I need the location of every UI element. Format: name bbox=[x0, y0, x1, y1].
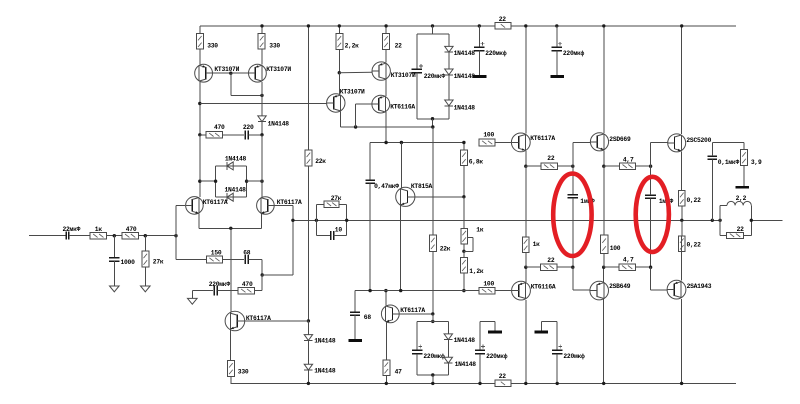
node loop bottom bbox=[431, 373, 434, 383]
resistor R 4,7 lower bbox=[619, 256, 651, 270]
node rail bracket bbox=[417, 24, 449, 34]
resistor R string 22к bbox=[305, 26, 326, 321]
node rail 2SD669 bbox=[602, 24, 605, 27]
svg-text:6,8к: 6,8к bbox=[469, 159, 484, 166]
wire 2SB649 emitter bbox=[603, 267, 605, 282]
wire input line bbox=[29, 235, 65, 237]
node bias tap bbox=[462, 238, 473, 254]
svg-text:27к: 27к bbox=[331, 195, 342, 202]
node L-block right bbox=[750, 219, 753, 222]
svg-text:470: 470 bbox=[242, 281, 253, 288]
svg-text:0,1мкФ: 0,1мкФ bbox=[718, 159, 740, 166]
transistor VT VAS КТ3107И bbox=[327, 88, 365, 112]
svg-text:220мкф: 220мкф bbox=[563, 353, 585, 360]
highlight ellipse right (1мкФ) bbox=[636, 177, 669, 252]
transistor VT output 2SA1943 bbox=[667, 280, 712, 299]
node 0,47 bottom bbox=[368, 289, 371, 292]
resistor R zobel 3,9 bbox=[741, 142, 762, 186]
node clamp right mid bbox=[245, 180, 262, 183]
svg-text:22: 22 bbox=[737, 226, 745, 233]
node bias bottom bbox=[462, 289, 465, 292]
wire 2SD669 emitter resistor bbox=[603, 166, 605, 235]
wire bracket bottom bbox=[417, 118, 449, 120]
diode VD clamp-top 1N4148 bbox=[216, 156, 247, 198]
wire feedback lead network bbox=[176, 259, 206, 261]
node L-block left bbox=[718, 205, 721, 235]
wire mirror base tie bbox=[207, 72, 255, 74]
svg-text:2SA1943: 2SA1943 bbox=[687, 283, 712, 290]
svg-text:10: 10 bbox=[335, 227, 343, 234]
node cascode emitter join bbox=[384, 141, 387, 144]
resistor R tail 330 bbox=[228, 330, 249, 384]
wire tail base bbox=[245, 320, 309, 322]
svg-text:1N4148: 1N4148 bbox=[454, 50, 476, 57]
svg-text:1,2к: 1,2к bbox=[469, 268, 484, 275]
node rail 2SA1943 bbox=[680, 382, 683, 385]
transistor VT cascode КТ6116А bbox=[372, 95, 415, 113]
inductor L output 2,2 bbox=[720, 195, 751, 221]
node bottom mid rail bbox=[478, 382, 481, 385]
resistor R feedback 470 bbox=[238, 275, 262, 294]
node diff tail bbox=[229, 227, 232, 313]
ground bottom mid bbox=[488, 331, 502, 334]
resistor R 0,22 lower bbox=[678, 220, 701, 280]
resistor R 22 cascode bbox=[383, 26, 402, 63]
svg-text:220мкФ: 220мкФ bbox=[424, 73, 446, 80]
node block left bbox=[315, 204, 318, 235]
svg-text:47: 47 bbox=[395, 369, 403, 376]
svg-text:КТ6116А: КТ6116А bbox=[531, 283, 556, 290]
svg-text:1к: 1к bbox=[533, 241, 541, 248]
capacitor C 220 compensation bbox=[243, 124, 262, 139]
node 2SD669 emitter bbox=[602, 165, 619, 168]
node zobel tap bbox=[711, 206, 714, 222]
svg-text:470: 470 bbox=[126, 226, 137, 233]
svg-text:1000: 1000 bbox=[121, 259, 136, 266]
node rail 2,2к bbox=[338, 24, 341, 27]
svg-text:2SB649: 2SB649 bbox=[609, 283, 631, 290]
resistor R top-rail 22 bbox=[495, 16, 511, 29]
node rail cap-2 bbox=[555, 24, 558, 27]
node rail 22 bbox=[384, 24, 387, 27]
transistor VT pre-out 2SD669 bbox=[590, 133, 631, 151]
wire KT815 base bbox=[415, 196, 464, 198]
node bracket bottom bbox=[431, 117, 434, 127]
diode VD tail-1 1N4148 bbox=[304, 321, 336, 364]
svg-text:1к: 1к bbox=[95, 226, 103, 233]
diode VD tail-2 1N4148 bbox=[304, 364, 336, 383]
svg-text:0,22: 0,22 bbox=[687, 241, 702, 248]
svg-text:220мкф: 220мкф bbox=[486, 353, 508, 360]
wire output mid line bbox=[293, 219, 783, 221]
ground C68 bbox=[348, 339, 362, 342]
svg-text:4,7: 4,7 bbox=[623, 157, 634, 164]
wire loop bottom bbox=[417, 374, 448, 376]
diode VD chain-1 1N4148 bbox=[445, 34, 476, 69]
node 470-220 row left bbox=[198, 133, 206, 136]
node bottom right rail bbox=[556, 382, 559, 385]
node output upper bbox=[680, 219, 683, 222]
svg-text:220мкф: 220мкф bbox=[563, 50, 585, 57]
wire Q1 emitter down bbox=[199, 82, 201, 135]
svg-text:330: 330 bbox=[238, 369, 249, 376]
capacitor C loop 220мкФ bbox=[412, 321, 445, 375]
transistor VT tail КТ6117А bbox=[225, 311, 271, 331]
node rail string bbox=[307, 24, 310, 27]
resistor R upper-driver 100 bbox=[479, 132, 511, 146]
node VAS collector junction bbox=[431, 125, 434, 235]
svg-text:100: 100 bbox=[483, 281, 494, 288]
svg-text:КТ815А: КТ815А bbox=[411, 183, 433, 190]
svg-text:330: 330 bbox=[269, 43, 280, 50]
resistor R 0,22 upper bbox=[678, 151, 701, 220]
wire to diff pair base bbox=[176, 205, 185, 259]
svg-text:22: 22 bbox=[395, 43, 403, 50]
wire driver-up emitter bbox=[525, 151, 527, 166]
capacitor C input 1000 to ground bbox=[109, 236, 135, 286]
resistor R 27к block bbox=[316, 195, 346, 208]
node clamp right col bbox=[260, 166, 263, 197]
svg-text:2SC5200: 2SC5200 bbox=[686, 137, 711, 144]
diode VD chain-3 1N4148 bbox=[445, 100, 476, 119]
transistor VT bias КТ6117А bbox=[381, 305, 425, 323]
capacitor C base 1мкФ second bbox=[645, 166, 673, 267]
svg-text:2,2к: 2,2к bbox=[345, 43, 360, 50]
node clamp left mid bbox=[214, 180, 217, 183]
svg-text:1N4148: 1N4148 bbox=[454, 105, 476, 112]
resistor R 4,7 upper bbox=[620, 157, 651, 170]
node feedback junction bbox=[261, 206, 293, 277]
diode VD clamp-bottom 1N4148 bbox=[216, 187, 247, 202]
resistor R bias 1,2к bbox=[460, 251, 483, 290]
svg-text:4,7: 4,7 bbox=[623, 256, 634, 263]
resistor R input 1к bbox=[90, 226, 122, 239]
svg-text:КТ6117А: КТ6117А bbox=[203, 199, 228, 206]
wire driver-dn collector bbox=[525, 300, 527, 384]
transistor VT diff-right КТ6117А bbox=[257, 197, 302, 215]
node lower loop top bbox=[417, 314, 448, 323]
resistor R 22 lower emitter bbox=[541, 257, 573, 270]
ground bottom right bbox=[535, 331, 549, 334]
node bias collector bbox=[384, 289, 387, 292]
node bias emitter rail bbox=[385, 382, 388, 385]
resistor R bias 1к bbox=[461, 227, 484, 252]
svg-text:68: 68 bbox=[364, 314, 372, 321]
ground input R bbox=[141, 286, 151, 292]
diode VD loop-1 1N4148 bbox=[444, 321, 475, 357]
svg-text:22: 22 bbox=[499, 16, 507, 23]
node flying cap bottom bbox=[571, 266, 590, 290]
wire 2SA1943 collector bbox=[681, 299, 683, 384]
capacitor C bottom 220мкФ right bbox=[541, 321, 585, 383]
node bias base junction bbox=[431, 312, 434, 315]
transistor VT mirror-left КТ3107И bbox=[195, 64, 240, 82]
svg-text:22мкФ: 22мкФ bbox=[63, 226, 81, 233]
wire KT815 emitter bbox=[400, 206, 402, 291]
svg-text:22: 22 bbox=[547, 257, 555, 264]
svg-text:1к: 1к bbox=[476, 227, 484, 234]
wire 2SB649 collector bbox=[603, 299, 605, 383]
transistor VT driver-up КТ6117А bbox=[511, 133, 555, 152]
node rail 330-2 bbox=[260, 24, 263, 27]
node cascode base tap bbox=[354, 104, 372, 129]
transistor VT driver-dn КТ6116А bbox=[512, 281, 556, 300]
resistor R lower-driver 100 bbox=[479, 281, 512, 294]
svg-text:КТ6117А: КТ6117А bbox=[530, 135, 555, 142]
ground zobel bbox=[735, 186, 749, 189]
ground rail cap-1 bbox=[473, 75, 487, 78]
node rail cap-1 bbox=[478, 24, 481, 27]
svg-text:КТ3107И: КТ3107И bbox=[214, 66, 239, 73]
transistor VT servo КТ815А bbox=[396, 183, 433, 206]
node driver-up emitter bbox=[524, 165, 541, 168]
wire 2SD669 emitter bbox=[603, 150, 605, 166]
wire bias collector bbox=[385, 291, 387, 306]
svg-text:3,9: 3,9 bbox=[751, 159, 762, 166]
node VAS top junction bbox=[338, 71, 372, 94]
wire driver base line bbox=[370, 142, 464, 144]
diode VD 1N4148 at mirror bbox=[258, 116, 289, 135]
resistor R 100 output bbox=[601, 235, 621, 267]
ground rail cap-2 bbox=[550, 75, 564, 78]
diode VD loop-2 1N4148 bbox=[444, 357, 476, 375]
node rail driver-dn bbox=[524, 382, 527, 385]
capacitor C zobel 0,1мкФ bbox=[708, 142, 744, 206]
svg-text:0,47мкФ: 0,47мкФ bbox=[374, 183, 399, 190]
transistor VT pre-out 2SB649 bbox=[590, 281, 631, 300]
svg-text:150: 150 bbox=[211, 250, 222, 257]
node input RC junction bbox=[113, 234, 116, 237]
ground feedback network bbox=[188, 291, 213, 305]
resistor R chain 22к bbox=[429, 235, 450, 314]
capacitor C 10 block bbox=[316, 204, 346, 240]
wire driver-dn emitter bbox=[525, 267, 527, 282]
svg-text:1N4148: 1N4148 bbox=[454, 337, 476, 344]
resistor R VAS 2,2к bbox=[336, 26, 359, 73]
svg-text:100: 100 bbox=[610, 245, 621, 252]
capacitor C 220мкФ VAS bbox=[412, 34, 446, 119]
node rail 2SC5200 bbox=[680, 24, 683, 27]
node mirror base tie bbox=[229, 72, 262, 96]
resistor R output 22 bbox=[720, 220, 751, 238]
svg-text:220мкф: 220мкф bbox=[485, 50, 507, 57]
svg-text:2SD669: 2SD669 bbox=[609, 136, 631, 143]
svg-text:КТ6117А: КТ6117А bbox=[277, 199, 302, 206]
svg-text:1N4148: 1N4148 bbox=[268, 120, 290, 127]
capacitor C 68 lower bbox=[350, 291, 371, 340]
resistor R 22 upper emitter bbox=[541, 155, 573, 169]
transistor VT upper КТ3107И bbox=[372, 62, 416, 80]
svg-text:0,22: 0,22 bbox=[687, 197, 702, 204]
capacitor C bottom 220мкФ mid bbox=[475, 321, 508, 383]
resistor R 1к inter-emitter bbox=[522, 166, 540, 267]
wire 2SC5200 collector bbox=[681, 26, 683, 134]
svg-text:22к: 22к bbox=[440, 246, 451, 253]
resistor R 470 compensation bbox=[206, 124, 244, 138]
node feedback to output line bbox=[291, 219, 294, 222]
wire 2SD669 collector bbox=[603, 26, 605, 133]
node rail driver bbox=[524, 24, 527, 27]
wire cascode link bbox=[385, 79, 387, 96]
svg-text:220мкф: 220мкф bbox=[423, 353, 445, 360]
wire cascode emitter bbox=[385, 112, 387, 143]
node base cap top bbox=[649, 143, 668, 168]
svg-text:1N4148: 1N4148 bbox=[314, 367, 336, 374]
svg-text:220: 220 bbox=[243, 124, 254, 131]
highlight ellipse left (1мкФ) bbox=[553, 174, 591, 256]
svg-text:22: 22 bbox=[499, 373, 507, 380]
wire lower driver base line bbox=[355, 290, 479, 292]
wire left column down bbox=[199, 135, 201, 197]
node base cap bottom bbox=[649, 266, 667, 290]
svg-text:1N4148: 1N4148 bbox=[454, 73, 476, 80]
node clamp left top bbox=[198, 180, 216, 183]
resistor R 6,8к bbox=[460, 143, 483, 197]
svg-text:КТ3107И: КТ3107И bbox=[340, 88, 365, 95]
svg-text:1N4148: 1N4148 bbox=[455, 361, 477, 368]
wire driver-up collector bbox=[525, 26, 527, 133]
wire diff emitters bbox=[199, 213, 262, 228]
wire bias base bbox=[399, 313, 433, 315]
node tail base bbox=[307, 319, 310, 322]
capacitor C input 22мкФ bbox=[63, 226, 91, 240]
svg-text:220мкФ: 220мкФ bbox=[209, 281, 231, 288]
resistor R bottom-rail 22 bbox=[495, 373, 511, 386]
diode VD chain-2 1N4148 bbox=[445, 69, 476, 100]
node 470-220 row right bbox=[260, 133, 263, 166]
svg-text:68: 68 bbox=[243, 250, 251, 257]
svg-text:330: 330 bbox=[207, 43, 218, 50]
resistor R collector-1 330 bbox=[196, 26, 218, 65]
node VAS base line left bbox=[198, 102, 327, 105]
node driver-dn emitter bbox=[524, 266, 541, 269]
wire positive supply rail (top, +U) bbox=[200, 25, 736, 27]
resistor R bias 47 bbox=[383, 323, 402, 384]
svg-text:КТ6116А: КТ6116А bbox=[390, 103, 415, 110]
node flying cap top bbox=[571, 142, 590, 194]
capacitor C 0,47мкФ bbox=[365, 143, 399, 291]
svg-text:1N4148: 1N4148 bbox=[225, 187, 247, 194]
node loop rail bbox=[431, 382, 434, 385]
resistor R input 27к to ground bbox=[142, 236, 164, 286]
node diff base junction bbox=[174, 234, 177, 237]
transistor VT mirror-right КТ3107И bbox=[249, 64, 292, 82]
capacitor C feedback 68 bbox=[243, 250, 262, 275]
svg-text:2,2: 2,2 bbox=[736, 195, 747, 202]
node 6,8к junction bbox=[462, 141, 465, 144]
transistor VT diff-left КТ6117А bbox=[186, 197, 228, 215]
svg-text:1N4148: 1N4148 bbox=[225, 156, 247, 163]
ground input C bbox=[110, 286, 120, 292]
capacitor C feedback 220мкФ bbox=[209, 281, 238, 295]
svg-text:100: 100 bbox=[483, 132, 494, 139]
capacitor C rail 220мкФ second bbox=[552, 26, 585, 75]
svg-text:470: 470 bbox=[214, 124, 225, 131]
node input filter junction bbox=[144, 234, 147, 237]
svg-text:27к: 27к bbox=[153, 259, 164, 266]
svg-text:КТ3107И: КТ3107И bbox=[266, 66, 291, 73]
node KT815 collector join bbox=[400, 141, 403, 188]
svg-text:1N4148: 1N4148 bbox=[314, 338, 336, 345]
transistor VT output 2SC5200 bbox=[668, 134, 712, 152]
wire VAS collector bbox=[340, 111, 432, 127]
capacitor C flying 1мкФ first bbox=[568, 195, 595, 268]
svg-text:КТ6117А: КТ6117А bbox=[400, 307, 425, 314]
resistor R collector-2 330 bbox=[258, 26, 280, 65]
node 2SB649 emitter bbox=[602, 266, 619, 269]
node mirror collector tie bbox=[260, 82, 263, 116]
wire negative supply rail (bottom, -U) bbox=[231, 382, 737, 384]
resistor R input 470 bbox=[122, 226, 176, 239]
node KT815 base junction bbox=[462, 195, 465, 228]
svg-text:22к: 22к bbox=[315, 158, 326, 165]
node rail 2SB649 bbox=[602, 382, 605, 385]
capacitor C rail 220мкФ first bbox=[474, 26, 507, 75]
node block right bbox=[345, 219, 348, 222]
resistor R feedback 150 bbox=[206, 250, 244, 263]
svg-text:22: 22 bbox=[547, 155, 555, 162]
node tail string rail bbox=[307, 382, 310, 385]
node KT815 emitter bottom bbox=[399, 289, 402, 292]
